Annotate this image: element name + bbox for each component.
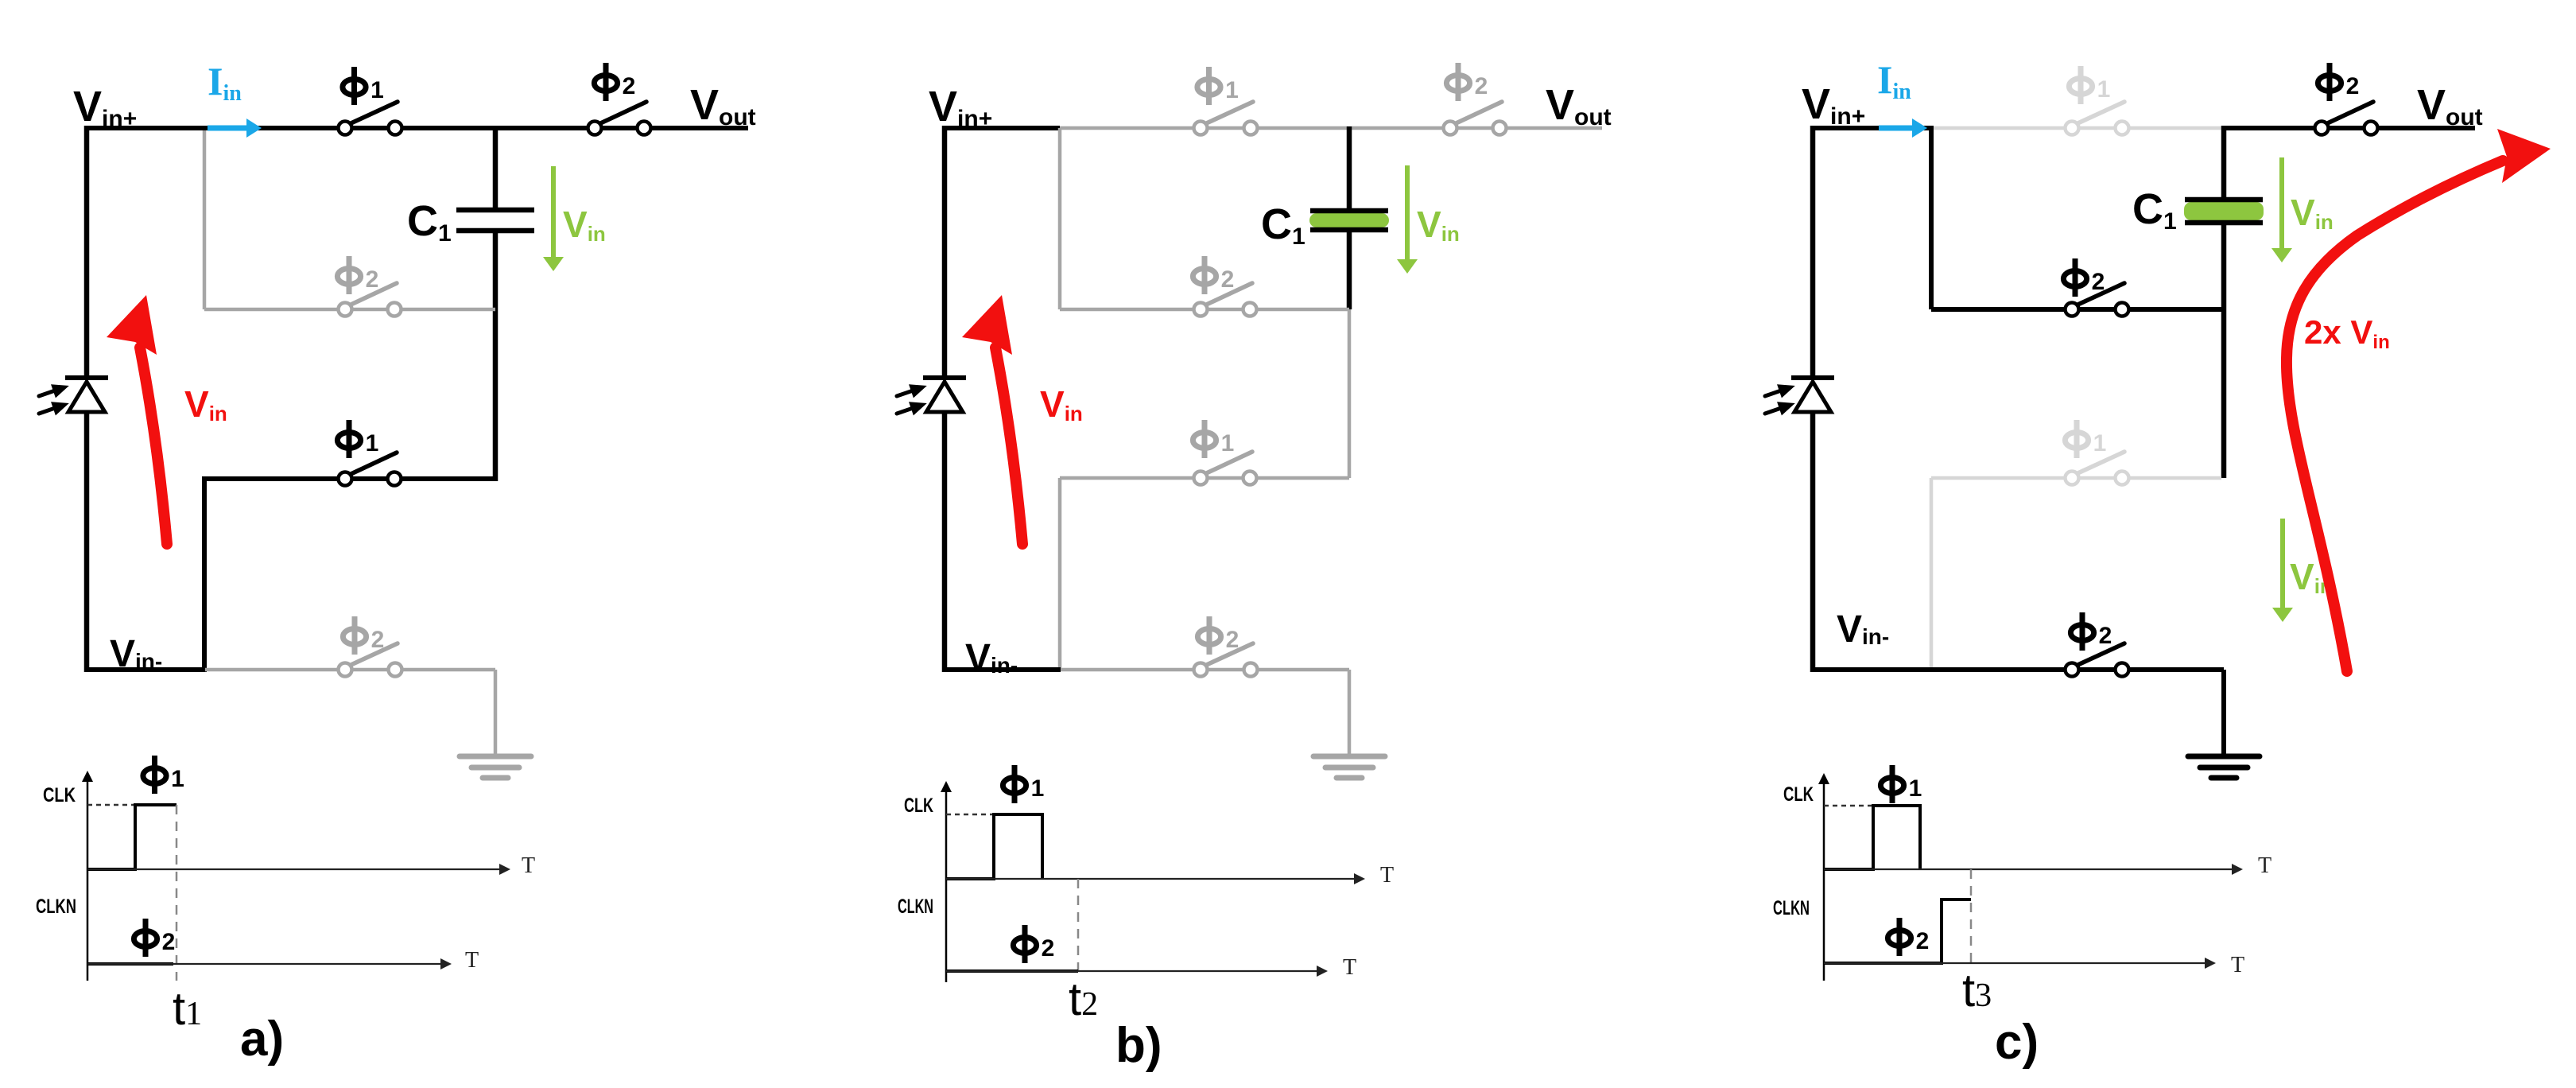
CLK waveform phi1 pulse b [946, 814, 1042, 879]
wire: Vin- rail b (black) [942, 667, 1061, 672]
node Vin- label c [1837, 608, 1889, 651]
svg-text:c): c) [1995, 1015, 2039, 1070]
dashed t1 marker [176, 805, 178, 981]
ground c (black) [2188, 756, 2260, 778]
svg-text:2: 2 [162, 929, 176, 955]
svg-text:CLKN: CLKN [1773, 897, 1810, 919]
svg-text:1: 1 [171, 766, 184, 792]
T axis 2 [87, 963, 442, 965]
dashed CLK high level [87, 804, 135, 806]
switch S3 phi2 mid c (black closed) [2066, 283, 2129, 317]
svg-text:CLKN: CLKN [36, 896, 76, 918]
label phi2 mid c [2063, 258, 2105, 297]
wire: Vin- rail c (black) [1810, 667, 2224, 672]
svg-text:CLK: CLK [1783, 783, 1814, 806]
current flow arrow 2xVin (red curve) [2287, 161, 2503, 671]
label phi2 output b (gray) [1446, 63, 1488, 101]
label Vin green b [1417, 204, 1460, 246]
label phi1 top c (light) [2069, 66, 2110, 104]
current arrow Iin (blue) [208, 119, 262, 138]
wire: top rail right active c (black) [2223, 126, 2475, 130]
T axis 1 c [1824, 868, 2233, 870]
voltage arrow Vin lower c (green) [2272, 519, 2293, 622]
svg-text:2: 2 [366, 266, 379, 293]
label phi2 ground b (gray) [1197, 616, 1239, 655]
svg-text:2: 2 [1475, 73, 1488, 99]
svg-text:1: 1 [366, 430, 379, 457]
wire: capacitor top lead b (black) [1347, 126, 1352, 211]
wire: corner vertical c (light) [1930, 478, 1934, 670]
current flow arrow Vin red b [962, 295, 1022, 544]
wire: Vin+ stub (black) [942, 126, 1060, 130]
svg-text:T: T [522, 853, 535, 878]
node Vin+ label b [929, 83, 992, 132]
svg-text:2: 2 [1916, 928, 1930, 954]
T axis 2 c [1824, 962, 2206, 964]
wire: phi2 mid branch b (gray) [1060, 308, 1349, 312]
label Vin green [563, 204, 606, 246]
wire: left vertical c lower (black) [1810, 412, 1816, 672]
label phi2 output switch [594, 63, 635, 101]
label phi1 clock c [1880, 765, 1922, 803]
switch S5 phi2 ground b (gray) [1194, 643, 1258, 677]
node Vout label c [2417, 81, 2483, 130]
CLKN waveform phi2 rising at t3 c [1824, 900, 1971, 963]
label Iin (blue) [208, 59, 242, 106]
wire: Vin- to phi2 ground branch (gray) [205, 668, 495, 672]
T axis 1 b [946, 878, 1356, 880]
label Iin c (blue) [1877, 57, 1911, 104]
svg-text:CLK: CLK [904, 795, 933, 817]
wire: left vertical c (black) [1810, 126, 1816, 378]
svg-text:T: T [1380, 863, 1394, 888]
wire: phi1 bottom branch b (gray) [1060, 476, 1349, 480]
label C1 b [1261, 200, 1305, 250]
dashed t3 marker [1970, 869, 1973, 966]
svg-text:T: T [1343, 955, 1356, 980]
label Vin red [184, 383, 227, 425]
capacitor C1 [456, 210, 534, 231]
wire: left vertical photodiode to Vin- (black) [84, 412, 90, 672]
label phi1 bottom b (gray) [1193, 420, 1234, 458]
wire: corner vertical to Vin- (black) [202, 476, 207, 672]
svg-text:1: 1 [2093, 430, 2107, 457]
svg-text:CLKN: CLKN [898, 896, 933, 918]
switch S1 phi1 top c (light open) [2066, 102, 2129, 135]
svg-text:T: T [465, 948, 479, 973]
label phi1 top b (gray) [1197, 67, 1239, 105]
wire: ground lead b (gray) [1348, 670, 1352, 756]
CLK waveform phi1 pulse c [1824, 806, 1920, 869]
svg-text:2: 2 [2099, 623, 2112, 649]
svg-text:2: 2 [371, 627, 385, 653]
wire: corner vertical b (gray) [1058, 478, 1062, 670]
node Vin- label b [965, 637, 1018, 679]
dashed CLK high level c [1824, 805, 1873, 807]
wire: ground lead c (black) [2221, 670, 2226, 756]
wire: Vin+ top rail (black) [84, 126, 748, 130]
capacitor C1 b (charged green) [1309, 211, 1389, 230]
switch S1 phi1 top b (gray open) [1194, 102, 1258, 135]
wire: left vertical b (black) [942, 126, 948, 378]
node Vin- label [110, 633, 162, 675]
label phi1 bottom switch [337, 420, 378, 458]
wire: Vin+ stub c (black) [1810, 126, 1931, 130]
CLK axis vertical c [1823, 783, 1825, 981]
capacitor C1 c (charged green) [2184, 200, 2264, 223]
T axis 2 b [946, 970, 1318, 972]
node Vout label [690, 81, 756, 130]
svg-text:1: 1 [1221, 430, 1235, 457]
voltage arrow Vin across C1 (green) [543, 166, 564, 271]
voltage arrow Vin across C1 b (green) [1397, 165, 1418, 274]
T axis 1 [87, 868, 501, 870]
label phi2 clock b [1013, 925, 1054, 963]
switch S2 phi2 output (black) [588, 102, 651, 135]
dashed CLK high level b [946, 814, 994, 816]
wire: Vin- rail (black) [84, 667, 205, 672]
current flow arrow Vin (red) [107, 295, 167, 544]
wire: top rail light inactive c [1931, 126, 2223, 130]
svg-text:1: 1 [370, 77, 384, 103]
label C1 c [2132, 185, 2177, 235]
wire: phi1 bottom branch c (light) [1931, 476, 2221, 480]
wire: capacitor top lead c (black) [2221, 126, 2227, 200]
wire: Vin- to ground branch b (gray) [1061, 668, 1349, 672]
CLKN waveform phi2 low b [946, 969, 1078, 973]
label phi2 output c [2318, 63, 2359, 101]
switch S4 phi1 bottom (black) [339, 453, 402, 486]
label phi1 clock [143, 756, 184, 794]
node Vin+ label c [1802, 80, 1865, 130]
label phi2 clock [134, 919, 175, 957]
svg-text:CLK: CLK [43, 784, 76, 806]
CLK axis vertical [87, 780, 89, 981]
label phi2 ground c [2070, 612, 2112, 651]
wire: gray vertical from top rail to phi2 mid (inactive) [203, 130, 207, 309]
svg-text:1: 1 [1031, 775, 1045, 802]
svg-text:2: 2 [623, 73, 636, 99]
wire: capacitor bottom lead c (black) [2221, 223, 2227, 478]
switch S4 phi1 bottom b (gray) [1194, 452, 1257, 485]
node Vout label b [1546, 81, 1612, 130]
switch S2 phi2 output c (black closed) [2315, 102, 2378, 135]
wire: phi2 mid branch (gray, inactive) [204, 308, 495, 312]
switch S5 phi2 ground c (black closed) [2066, 643, 2129, 677]
photodiode PV1 c [1763, 378, 1834, 421]
wire: ground lead (gray) [494, 670, 498, 756]
voltage arrow Vin across C1 c (green) [2271, 157, 2292, 262]
label phi2 clock c [1887, 918, 1929, 956]
label phi1 top switch [343, 67, 384, 105]
switch S5 phi2 ground (gray open) [339, 643, 402, 677]
wire: gray vertical to mid b [1058, 128, 1062, 309]
label C1 [407, 197, 452, 247]
switch S3 phi2 mid (gray open) [339, 283, 402, 317]
dashed t2 marker [1077, 879, 1080, 973]
label phi2 ground switch (gray) [343, 616, 384, 655]
node Vin+ label [73, 83, 137, 132]
wire: top rail (gray inactive) [1060, 126, 1602, 130]
svg-text:T: T [2258, 853, 2271, 878]
svg-text:1: 1 [2097, 76, 2111, 103]
switch S1 phi1 top (closed path, black) [339, 102, 402, 135]
svg-text:2: 2 [2346, 73, 2360, 99]
svg-text:b): b) [1115, 1018, 1162, 1073]
CLK waveform phi1 pulse [87, 805, 177, 869]
wire: capacitor bottom lead b (black) [1347, 230, 1352, 309]
photodiode PV1 b [894, 378, 966, 421]
wire: phi1 bottom branch (black) [204, 476, 495, 481]
ground b (gray) [1313, 756, 1385, 778]
label Vin green lower c [2290, 556, 2333, 598]
wire: capacitor bottom lead (black) [493, 231, 499, 481]
svg-text:1: 1 [1909, 775, 1922, 802]
wire: black vertical Vin+ to phi2 mid c [1929, 126, 1934, 309]
svg-text:2: 2 [1221, 266, 1235, 293]
label Vin green c [2291, 192, 2334, 234]
svg-text:a): a) [240, 1012, 284, 1067]
CLK axis vertical b [945, 791, 948, 982]
svg-text:2: 2 [1226, 627, 1240, 653]
svg-text:2: 2 [2092, 269, 2105, 295]
switch S3 phi2 mid b (gray) [1194, 283, 1257, 317]
current arrow Iin c (blue) [1879, 119, 1927, 138]
wire: capacitor top lead (black) [493, 126, 499, 210]
label phi1 bottom c (light) [2065, 420, 2106, 458]
wire: cap lead to phi1 branch b (gray) [1348, 309, 1352, 478]
svg-text:2: 2 [1042, 935, 1055, 962]
switch S2 phi2 output b (gray) [1444, 102, 1507, 135]
CLKN waveform phi2 low [87, 962, 173, 966]
label phi2 mid b (gray) [1193, 256, 1234, 294]
svg-text:1: 1 [1225, 77, 1239, 103]
photodiode PV1 [37, 378, 108, 421]
svg-text:T: T [2231, 953, 2244, 977]
label Vin red b [1040, 383, 1083, 425]
label phi2 mid switch (gray) [337, 256, 378, 294]
switch S4 phi1 bottom c (light) [2066, 452, 2129, 485]
wire: phi2 mid branch c (black active) [1931, 307, 2224, 312]
wire: left vertical Vin+ to photodiode (black) [84, 126, 90, 378]
wire: left vertical b lower (black) [942, 412, 948, 672]
label phi1 clock b [1003, 765, 1044, 803]
ground (gray) [460, 756, 531, 778]
